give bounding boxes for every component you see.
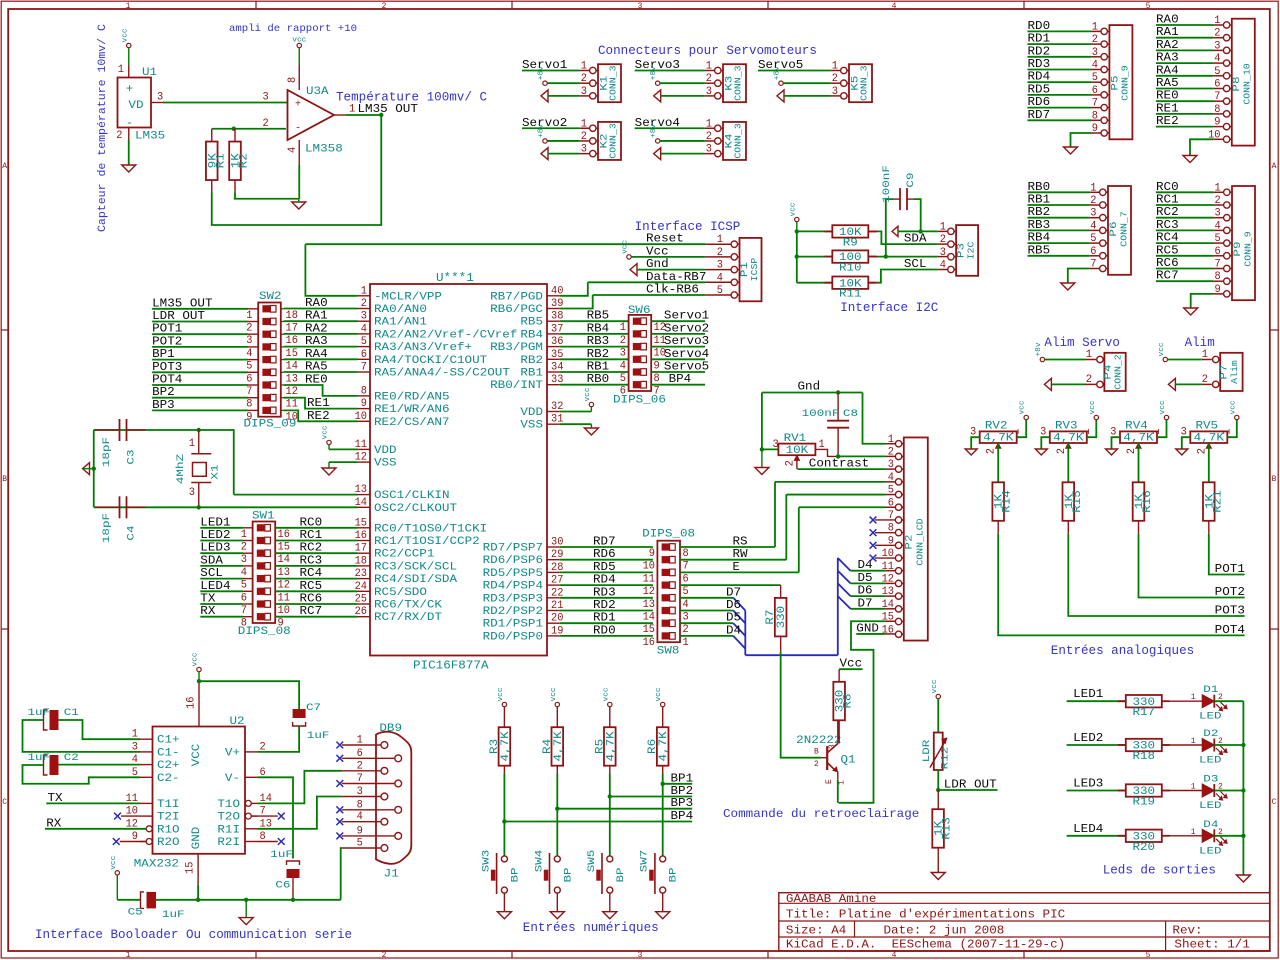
svg-text:A: A: [2, 162, 7, 171]
power vcc R5: [608, 702, 612, 706]
wire Servo2 pin1: [522, 127, 580, 129]
resistor R6 4.7K: [662, 707, 664, 728]
wire LED2: [1067, 744, 1126, 746]
svg-text:4MhZ: 4MhZ: [175, 454, 187, 484]
dip switch SW2 DIPS_09: [258, 303, 281, 417]
capacitor C2 1uF: [50, 755, 59, 775]
ground K1 pin3: [541, 90, 548, 102]
svg-text:10: 10: [643, 561, 656, 573]
no-connect T2I: [114, 813, 121, 820]
bus vertical P2: [837, 558, 839, 655]
ground K2 pin3: [541, 148, 548, 160]
svg-text:10: 10: [278, 605, 291, 617]
wire RB2 P6: [1028, 217, 1090, 219]
wire LDR OUT: [938, 789, 997, 791]
wire D5 P2: [851, 582, 886, 584]
connector P4 CONN_2: [1104, 353, 1125, 391]
svg-text:U2: U2: [230, 716, 245, 728]
no-connect J1 pin8: [336, 806, 343, 813]
wire RV5 wiper: [1208, 443, 1210, 482]
wire C1 to pin3: [23, 720, 141, 752]
svg-text:6: 6: [683, 573, 689, 585]
ic U2 MAX232: [153, 727, 246, 854]
svg-text:P8: P8: [1232, 76, 1243, 91]
no-connect P2 pin10: [875, 557, 896, 559]
wire R3 to SW3: [503, 774, 505, 856]
svg-text:1: 1: [940, 221, 946, 233]
resistor R19 330: [1126, 784, 1162, 796]
svg-text:RC3/SCK/SCL: RC3/SCK/SCL: [374, 561, 457, 573]
svg-text:RB2: RB2: [520, 355, 543, 367]
svg-text:1uF: 1uF: [162, 910, 185, 921]
svg-text:BP4: BP4: [669, 372, 692, 386]
wire R11 to SCL: [877, 270, 938, 283]
wire T1O to DB9 pin2: [258, 771, 342, 804]
connector K5 CONN_3: [849, 64, 872, 102]
svg-text:vcc: vcc: [1089, 400, 1097, 414]
ground K3 pin3: [654, 90, 661, 102]
wire D4 to rail: [1214, 835, 1243, 837]
connector K4 CONN_3: [723, 122, 746, 160]
svg-text:RC2/CCP1: RC2/CCP1: [374, 549, 435, 561]
svg-text:R7: R7: [765, 610, 777, 625]
svg-text:2: 2: [986, 448, 998, 454]
pin 10 U2 T2I: [140, 815, 153, 817]
svg-text:T1O: T1O: [217, 799, 240, 811]
ground P7 pin2: [1168, 378, 1175, 390]
ground R13: [931, 873, 945, 880]
pin 1 J1: [381, 742, 388, 749]
wire opamp output: [346, 114, 381, 116]
wire inverting input: [212, 128, 286, 130]
resistor R7 330: [775, 598, 787, 637]
svg-text:6: 6: [241, 592, 247, 604]
wire MCLR to Reset: [305, 244, 357, 296]
svg-text:E: E: [825, 779, 834, 784]
capacitor C5 1uF: [147, 892, 157, 909]
svg-text:RA1/AN1: RA1/AN1: [374, 317, 427, 329]
wire R16 to POT2: [1139, 534, 1245, 598]
power vcc RV2: [1024, 415, 1028, 419]
wire RW vertical: [785, 495, 787, 560]
wire RV3 pin3 gnd: [1041, 437, 1050, 449]
wire P7 pin1: [1168, 359, 1202, 361]
capacitor C4 18pF: [119, 496, 121, 518]
wire D6 P2: [851, 595, 886, 597]
wire C2 to pin5: [23, 765, 141, 784]
resistor R17 330: [1126, 695, 1162, 707]
resistor R16 1K: [1133, 482, 1145, 521]
svg-text:+8v: +8v: [1035, 342, 1043, 356]
wire SW5 gnd: [609, 893, 611, 912]
svg-text:1: 1: [838, 780, 847, 785]
svg-text:12: 12: [882, 573, 894, 585]
svg-text:15: 15: [278, 542, 290, 554]
svg-text:VD: VD: [128, 100, 144, 112]
svg-text:vcc: vcc: [497, 687, 505, 701]
wire K2 pin2: [547, 140, 579, 142]
svg-text:+: +: [126, 82, 133, 96]
svg-text:15: 15: [643, 624, 655, 636]
wire RB2 U1 to SW6: [560, 358, 629, 360]
wire RE0 P8: [1156, 100, 1213, 102]
svg-text:1: 1: [683, 637, 689, 649]
svg-text:PIC16F877A: PIC16F877A: [413, 659, 489, 673]
svg-text:R9: R9: [843, 237, 858, 249]
dip switch SW8 DIPS_08: [657, 541, 680, 643]
power vcc I2C: [795, 217, 799, 221]
junction led rail: [1241, 834, 1245, 838]
wire R4 to SW4: [556, 774, 558, 856]
svg-text:15: 15: [286, 348, 298, 360]
wire RV1 pin1: [815, 449, 838, 456]
svg-text:5: 5: [357, 838, 363, 850]
bus entry D5 P2: [838, 571, 851, 584]
wire Servo5 SW6: [651, 371, 705, 373]
ground U1: [122, 165, 136, 172]
svg-text:Interface Booloader Ou communi: Interface Booloader Ou communication ser…: [35, 927, 352, 942]
pin 40 U1 RB7/PGD: [547, 295, 560, 297]
wire rail C5 to DB9: [156, 899, 341, 901]
svg-text:11: 11: [643, 573, 656, 585]
svg-text:14: 14: [882, 599, 895, 611]
svg-text:VDD: VDD: [374, 445, 397, 457]
svg-text:4: 4: [620, 360, 626, 372]
wire RD0 P5: [1028, 30, 1092, 32]
svg-text:SW8: SW8: [657, 646, 680, 658]
svg-text:+8v: +8v: [774, 66, 782, 80]
wire P5 pin9 gnd: [1071, 133, 1092, 147]
svg-text:4: 4: [892, 2, 897, 11]
pin 15 U2 GND: [197, 854, 199, 885]
svg-text:B: B: [1272, 475, 1277, 484]
junction C9 left: [884, 254, 888, 258]
svg-text:7: 7: [683, 561, 689, 573]
wire P2 pin6: [799, 506, 886, 508]
wire BP3: [557, 808, 692, 810]
svg-text:100nF: 100nF: [802, 409, 840, 420]
svg-text:+8v: +8v: [538, 66, 546, 80]
no-connect J1 pin6: [336, 755, 343, 762]
svg-text:1: 1: [1191, 783, 1196, 792]
svg-text:-: -: [126, 116, 133, 130]
wire RD4 U1 to SW8: [560, 584, 653, 586]
wire K1 pin2: [547, 82, 579, 84]
wire TX: [46, 802, 140, 804]
wire P7 pin2: [1175, 383, 1201, 385]
ground P9: [1184, 308, 1198, 315]
wire E: [680, 571, 799, 573]
wire SCL SW1: [200, 578, 243, 580]
wire RE1: [284, 398, 358, 409]
svg-text:11: 11: [286, 399, 299, 411]
svg-text:vcc: vcc: [1158, 342, 1166, 356]
wire K3 pin3: [661, 95, 705, 97]
pin 4 J1: [381, 818, 388, 825]
resistor R2 1K: [234, 129, 236, 142]
svg-text:RB7/PGD: RB7/PGD: [490, 291, 543, 303]
svg-text:VDD: VDD: [520, 407, 543, 419]
resistor R11 10K: [797, 282, 833, 284]
svg-text:R2O: R2O: [157, 837, 180, 849]
svg-text:SW2: SW2: [259, 291, 282, 303]
wire RB7 to Data: [560, 282, 588, 296]
svg-text:RC1/T1OSI/CCP2: RC1/T1OSI/CCP2: [374, 536, 480, 548]
power vcc RV5: [1235, 415, 1239, 419]
svg-text:1: 1: [361, 285, 367, 297]
wire K3 pin2: [660, 82, 705, 84]
svg-text:Commande du retroeclairage: Commande du retroeclairage: [723, 807, 919, 821]
svg-text:R10: R10: [839, 263, 862, 275]
svg-text:vcc: vcc: [121, 28, 129, 42]
pin 4 U1 RA2/AN2/Vref-/CVref: [358, 333, 371, 335]
pin 12 U2 R1O: [146, 826, 152, 832]
svg-text:-MCLR/VPP: -MCLR/VPP: [374, 291, 442, 303]
pin 9 J1: [395, 833, 402, 840]
svg-text:OSC2/CLKOUT: OSC2/CLKOUT: [374, 503, 457, 515]
svg-text:RD0: RD0: [593, 623, 616, 637]
wire P9 pin9 gnd: [1191, 294, 1214, 308]
wire RC2 P9: [1156, 217, 1214, 219]
svg-text:E: E: [733, 560, 740, 574]
svg-text:D4: D4: [1203, 820, 1218, 831]
svg-text:1: 1: [357, 735, 363, 747]
svg-text:1uF: 1uF: [270, 850, 293, 861]
svg-text:LED2: LED2: [1073, 731, 1103, 745]
svg-text:RC7: RC7: [300, 604, 323, 618]
crystal X1 4MhZ: [198, 430, 200, 454]
svg-text:16: 16: [643, 637, 655, 649]
wire BP1: [663, 783, 693, 785]
resistor R18 330: [1126, 739, 1162, 751]
ground SW4: [550, 912, 564, 919]
svg-text:CONN_3: CONN_3: [609, 65, 619, 100]
svg-text:RE0/RD/AN5: RE0/RD/AN5: [374, 391, 450, 403]
svg-text:2: 2: [361, 298, 367, 310]
junction C9 right: [919, 229, 923, 233]
wire SW3 gnd: [503, 893, 505, 912]
svg-text:R16: R16: [1142, 490, 1154, 513]
wire R5 to SW5: [609, 774, 611, 856]
svg-text:1: 1: [241, 529, 247, 541]
svg-text:6: 6: [357, 748, 363, 760]
svg-text:RE2/CS/AN7: RE2/CS/AN7: [374, 417, 450, 429]
svg-text:R4: R4: [542, 738, 554, 754]
pin 4 U2 C2+: [140, 764, 153, 766]
wire RA5 SW2 to U1: [284, 371, 358, 373]
svg-text:vcc: vcc: [110, 856, 118, 870]
pin 5 U2 C2-: [140, 776, 153, 778]
junction led rail: [1241, 788, 1245, 792]
svg-text:GND: GND: [191, 826, 203, 849]
svg-text:D4: D4: [726, 623, 741, 637]
svg-text:VSS: VSS: [374, 458, 397, 470]
wire osc top to pin13: [199, 430, 234, 495]
svg-text:18: 18: [286, 310, 298, 322]
wire C2 to pin4: [59, 764, 141, 766]
wire POT1 SW2: [152, 333, 248, 335]
pin 37 U1 RB4: [547, 333, 560, 335]
svg-text:Alim Servo: Alim Servo: [1044, 335, 1120, 350]
svg-text:2: 2: [940, 234, 946, 246]
power +8V P4: [1040, 357, 1044, 361]
svg-text:3: 3: [940, 247, 946, 259]
junction rail pin15: [196, 898, 200, 902]
svg-text:+8v: +8v: [650, 124, 658, 138]
wire RC7 P9: [1156, 280, 1214, 282]
svg-text:1: 1: [1221, 428, 1233, 434]
svg-text:5: 5: [361, 336, 367, 348]
svg-text:2: 2: [382, 951, 387, 960]
wire R7 to base: [781, 652, 821, 758]
pin stub SW2 right: [281, 384, 284, 386]
ground SW3: [497, 912, 511, 919]
svg-text:1: 1: [620, 322, 626, 334]
svg-text:CONN_3: CONN_3: [609, 123, 619, 158]
svg-text:RE2: RE2: [307, 409, 330, 423]
svg-text:vcc: vcc: [655, 687, 663, 701]
svg-text:15: 15: [185, 862, 197, 874]
svg-text:8: 8: [287, 77, 299, 83]
svg-text:POT1: POT1: [1215, 562, 1245, 576]
svg-text:VSS: VSS: [520, 420, 543, 432]
transistor Q1 2N2222: [821, 757, 827, 759]
svg-text:V-: V-: [225, 773, 240, 785]
wire SW1 right to U1: [275, 616, 357, 618]
svg-text:4,7K: 4,7K: [553, 731, 565, 762]
svg-text:vcc: vcc: [931, 679, 939, 693]
svg-text:ICSP: ICSP: [750, 258, 760, 282]
power +8V K5: [779, 81, 783, 85]
ground P8: [1183, 156, 1197, 163]
pin 9 U2 R2O: [146, 839, 152, 845]
svg-text:SW5: SW5: [587, 850, 598, 873]
wire vcc pin32: [560, 411, 592, 413]
svg-text:7: 7: [654, 386, 660, 398]
bus entry: [733, 623, 745, 636]
wire RD5 U1 to SW8: [560, 571, 653, 573]
wire RX SW1: [200, 616, 243, 618]
svg-text:9: 9: [361, 398, 367, 410]
svg-text:LED3: LED3: [1073, 777, 1103, 791]
pin stub SW2 right: [281, 359, 284, 361]
capacitor C7 1uF: [293, 709, 306, 718]
svg-text:RD6/PSP6: RD6/PSP6: [483, 555, 543, 567]
power vcc C5: [115, 871, 119, 875]
svg-text:CONN_3: CONN_3: [734, 123, 744, 158]
svg-text:1: 1: [189, 438, 195, 450]
resistor R20 330: [1126, 830, 1162, 842]
svg-text:CONN_3: CONN_3: [734, 65, 744, 100]
svg-text:2: 2: [357, 760, 363, 772]
no-connect P2 pin8: [875, 532, 896, 534]
ground SW5: [603, 912, 617, 919]
svg-text:R1: R1: [215, 153, 227, 169]
svg-text:GAABAB Amine: GAABAB Amine: [786, 892, 877, 906]
junction output: [379, 113, 383, 117]
ground RV3: [1035, 449, 1047, 455]
wire SW1 right to U1: [275, 552, 357, 554]
power vcc U1: [127, 43, 131, 47]
pin 7 J1: [395, 780, 402, 787]
wire SW1 right to U1: [275, 540, 357, 542]
svg-text:C6: C6: [275, 881, 290, 892]
wire LED4 SW1: [200, 590, 243, 592]
junction led rail: [1241, 743, 1245, 747]
wire C7 to V+: [258, 727, 300, 752]
pin 7 U1 RA5/ANA4/-SS/C2OUT: [358, 371, 371, 373]
wire gnd net LCD: [762, 392, 863, 394]
svg-text:C1-: C1-: [157, 747, 180, 759]
svg-text:R5: R5: [594, 739, 606, 754]
wire LED4: [1067, 835, 1126, 837]
wire P2 pin5: [786, 494, 885, 496]
connector P1 ICSP: [740, 238, 762, 301]
svg-text:16: 16: [186, 697, 198, 709]
wire vcc R8: [839, 668, 862, 670]
sensor U1 LM35: [128, 65, 130, 78]
svg-text:5: 5: [1146, 2, 1151, 11]
svg-text:8: 8: [654, 373, 660, 385]
title block: [779, 893, 1270, 951]
potentiometer RV3 4.7K: [1050, 431, 1087, 443]
junction BP2: [608, 794, 612, 798]
ground RV2: [965, 449, 977, 455]
svg-text:7: 7: [361, 362, 367, 374]
svg-text:LED: LED: [1199, 712, 1222, 723]
pin 3 U1 RA1/AN1: [358, 320, 371, 322]
wire RC5 P9: [1156, 255, 1214, 257]
svg-text:6: 6: [361, 349, 367, 361]
led D2: [1202, 739, 1214, 752]
wire K4 pin2: [660, 140, 705, 142]
pin 29 U1 RD6/PSP6: [547, 559, 560, 561]
wire RA4 P8: [1156, 75, 1213, 77]
svg-text:CONN_3: CONN_3: [860, 65, 870, 100]
wire BP3 SW2: [152, 409, 248, 411]
switch SW4 BP: [554, 856, 560, 862]
wire RA0 P8: [1156, 24, 1213, 26]
svg-text:RE0: RE0: [305, 373, 328, 387]
ground RV4: [1106, 449, 1118, 455]
svg-text:LED: LED: [1199, 846, 1222, 857]
wire osc bottom: [94, 506, 199, 508]
wire LM35 OUT SW2: [152, 308, 248, 310]
pin 14 U2 T1O: [245, 800, 251, 806]
svg-text:1: 1: [888, 434, 894, 446]
svg-text:4,7K: 4,7K: [605, 731, 617, 762]
svg-text:DIPS_08: DIPS_08: [642, 529, 695, 541]
wire P6 pin7 gnd: [1068, 269, 1090, 284]
bus entry D6 P2: [838, 583, 851, 596]
svg-text:1uF: 1uF: [28, 753, 51, 764]
wire D4 P2: [851, 570, 886, 572]
wire RB5 U1 to SW6: [560, 320, 629, 322]
pin 39 U1 RB6/PGC: [547, 308, 560, 310]
svg-text:Température 100mv/ C: Température 100mv/ C: [336, 90, 487, 105]
svg-text:BP3: BP3: [671, 796, 694, 810]
svg-text:KiCad E.D.A. EESchema (2007-1: KiCad E.D.A. EESchema (2007-11-29-c): [786, 938, 1065, 952]
svg-text:LDR: LDR: [922, 740, 933, 763]
wire R14 to POT4: [998, 534, 1244, 636]
led D1: [1202, 695, 1214, 708]
svg-text:R1I: R1I: [217, 824, 240, 836]
wire C8 to P2 pin2: [838, 455, 885, 457]
svg-text:CONN_9: CONN_9: [1244, 231, 1254, 266]
wire RX: [45, 828, 146, 830]
capacitor C3 18pF: [119, 419, 121, 441]
svg-text:D3: D3: [1203, 775, 1218, 786]
